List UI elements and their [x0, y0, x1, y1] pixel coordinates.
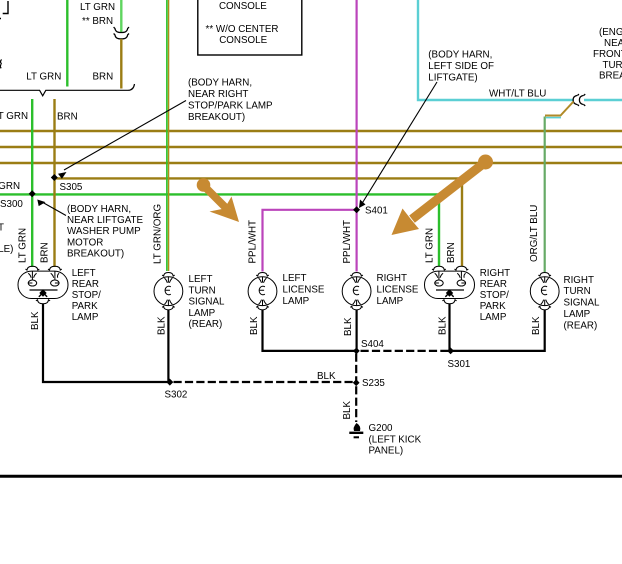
wire BLK lamp6 down to S301 [451, 310, 545, 351]
svg-text:BREAK: BREAK [599, 71, 622, 82]
wire BLK lamp3 down [263, 310, 357, 351]
inline connector on WHT/LT BLU [573, 94, 585, 106]
svg-text:LEFT SIDE OF: LEFT SIDE OF [428, 61, 494, 72]
splice S300 [29, 190, 36, 197]
big arrow 2 [392, 155, 494, 236]
svg-text:LEFT: LEFT [283, 273, 307, 284]
svg-text:BLK: BLK [249, 316, 260, 335]
wire LT GRN to left rear lamp [31, 99, 33, 267]
svg-text:LAMP: LAMP [189, 308, 216, 319]
svg-text:CONSOLE: CONSOLE [219, 35, 267, 46]
lamp left license [248, 273, 277, 310]
svg-text:BLK: BLK [30, 311, 41, 330]
svg-text:BREAKOUT): BREAKOUT) [67, 249, 124, 260]
page frame bottom [0, 475, 622, 478]
svg-text:NEAR R: NEAR R [604, 38, 622, 49]
big arrow 1 [197, 178, 239, 222]
wire LT BLU stripe jog [546, 117, 561, 119]
svg-text:LT GRN/ORG: LT GRN/ORG [153, 204, 164, 264]
svg-text:(BODY HARN,: (BODY HARN, [67, 204, 131, 215]
svg-text:LT GRN: LT GRN [0, 181, 20, 192]
svg-text:BRN: BRN [93, 72, 114, 83]
svg-text:REAR: REAR [72, 279, 99, 290]
leader to S401 [362, 82, 437, 204]
wire BLK dashed S404 to S301 [361, 350, 451, 352]
svg-text:TURN: TURN [564, 286, 591, 297]
svg-text:LT GRN: LT GRN [425, 228, 436, 263]
svg-text:BLK: BLK [157, 316, 168, 335]
svg-text:LEFT: LEFT [189, 274, 213, 285]
svg-text:RIGHT: RIGHT [564, 275, 594, 286]
svg-text:STOP/: STOP/ [72, 290, 101, 301]
lamp right turn signal [530, 273, 559, 310]
connector fragment left edge [0, 60, 1, 69]
splice S302 [166, 379, 173, 386]
svg-text:STOP/: STOP/ [480, 290, 509, 301]
svg-text:S401: S401 [365, 205, 388, 216]
inline connector on BRN wire [114, 27, 129, 39]
svg-text:NEAR LIFTGATE: NEAR LIFTGATE [67, 215, 143, 226]
svg-text:LAMP: LAMP [564, 309, 591, 320]
svg-text:LAMP: LAMP [72, 312, 99, 323]
svg-text:BLK: BLK [342, 401, 353, 420]
svg-text:S235: S235 [362, 378, 385, 389]
wire BLK lamp1 down [43, 304, 170, 382]
svg-text:PARK: PARK [72, 301, 98, 312]
svg-text:LAMP: LAMP [377, 296, 404, 307]
svg-text:LT GRN: LT GRN [0, 111, 28, 122]
svg-text:S300: S300 [0, 199, 23, 210]
svg-text:** BRN: ** BRN [82, 16, 113, 27]
svg-text:LICENSE: LICENSE [377, 284, 419, 295]
wire BRN bus 1 [0, 130, 622, 132]
svg-text:(LEFT KICK: (LEFT KICK [369, 435, 422, 446]
lamp left turn signal [154, 273, 183, 310]
wire BRN to left rear lamp [53, 99, 55, 267]
wire WHT/LT BLU from top [418, 0, 573, 100]
svg-text:S302: S302 [165, 390, 188, 401]
svg-text:CONSOLE: CONSOLE [219, 1, 267, 12]
svg-text:NEAR RIGHT: NEAR RIGHT [188, 89, 248, 100]
splice S401 [353, 206, 360, 213]
lamp right license [342, 273, 371, 310]
wire PPL/WHT from top to S401 [356, 0, 358, 210]
svg-text:BLK: BLK [317, 371, 336, 382]
ground G200 [349, 423, 363, 437]
svg-text:S305: S305 [60, 182, 83, 193]
wire PPL/WHT S401 branch to left license lamp [263, 210, 357, 272]
wire BLK dashed S302 to S235 [174, 381, 357, 383]
svg-text:RIGHT: RIGHT [377, 273, 407, 284]
svg-text:LT GRN: LT GRN [18, 228, 29, 263]
svg-text:PARK: PARK [480, 301, 506, 312]
svg-text:TURN: TURN [189, 285, 216, 296]
wire LT GRN/ORG to left turn lamp [167, 0, 169, 271]
splice S301 [447, 348, 454, 355]
svg-text:REAR: REAR [480, 279, 507, 290]
wire BLK lamp4 down [356, 310, 358, 351]
lamp left rear stop/park [18, 266, 68, 304]
svg-text:BRN: BRN [40, 242, 51, 263]
svg-text:LT GRN: LT GRN [80, 2, 115, 13]
svg-text:PPL/WHT: PPL/WHT [342, 220, 353, 264]
svg-text:LT GRN: LT GRN [26, 72, 61, 83]
svg-text:BLK: BLK [343, 317, 354, 336]
svg-text:BREAKOUT): BREAKOUT) [188, 112, 245, 123]
svg-text:T: T [0, 223, 4, 234]
svg-text:ORG/LT BLU: ORG/LT BLU [529, 205, 540, 262]
svg-text:G200: G200 [369, 423, 394, 434]
lamp right rear stop/park [425, 266, 475, 304]
dashed box corner top left [0, 1, 8, 19]
leader to S300 [42, 202, 66, 216]
svg-text:SIGNAL: SIGNAL [189, 297, 225, 308]
svg-text:WHT/LT BLU: WHT/LT BLU [489, 89, 546, 100]
wire BLK lamp5 down [448, 304, 450, 351]
wire BLK dashed S235 to G200 [355, 386, 357, 422]
splice S235 [353, 379, 360, 386]
svg-text:WASHER PUMP: WASHER PUMP [67, 226, 141, 237]
svg-text:MOTOR: MOTOR [67, 237, 103, 248]
harness brace [0, 84, 135, 96]
wire ORG/LT BLU to right turn lamp [544, 117, 546, 273]
svg-text:(REAR): (REAR) [564, 320, 598, 331]
svg-text:(BODY HARN,: (BODY HARN, [428, 50, 492, 61]
svg-text:LAMP: LAMP [283, 296, 310, 307]
wire BRN S305 to right rear lamp [55, 178, 463, 266]
wire ORG/LT BLU jog [545, 102, 574, 116]
wire LT GRN top left vertical [66, 0, 68, 87]
svg-text:STOP/PARK LAMP: STOP/PARK LAMP [188, 100, 273, 111]
svg-text:PPL/WHT: PPL/WHT [248, 220, 259, 264]
svg-text:BRN: BRN [446, 242, 457, 263]
wire BLK lamp2 down [167, 310, 169, 382]
svg-text:BLK: BLK [531, 316, 542, 335]
wire BLK dashed S404 to S235 [355, 354, 357, 383]
svg-text:(REAR): (REAR) [189, 319, 223, 330]
svg-text:LAMP: LAMP [480, 312, 507, 323]
svg-text:LE): LE) [0, 244, 13, 255]
wire PPL/WHT S401 to right license lamp [356, 210, 358, 272]
svg-text:S301: S301 [448, 359, 471, 370]
splice S305 [51, 174, 58, 181]
leader to S305 [64, 101, 186, 171]
wire LT GRN above connector C [120, 0, 122, 33]
svg-text:S404: S404 [361, 339, 384, 350]
svg-text:(BODY HARN,: (BODY HARN, [188, 77, 252, 88]
wire WHT/LT BLU right of connector [584, 99, 622, 101]
wire LT GRN bus S300 to right rear lamp [0, 194, 439, 266]
splice S404 [353, 348, 360, 355]
svg-text:LEFT: LEFT [72, 268, 96, 279]
svg-text:LICENSE: LICENSE [283, 284, 325, 295]
console note box [198, 0, 302, 55]
wire BRN below connector [120, 39, 122, 89]
svg-text:BLK: BLK [438, 316, 449, 335]
svg-text:RIGHT: RIGHT [480, 268, 510, 279]
wire BRN bus 2 [0, 146, 622, 148]
svg-text:TURN L: TURN L [603, 60, 622, 71]
svg-text:** W/O CENTER: ** W/O CENTER [206, 24, 279, 35]
svg-text:PANEL): PANEL) [369, 446, 404, 457]
svg-text:SIGNAL: SIGNAL [564, 298, 600, 309]
svg-text:LIFTGATE): LIFTGATE) [428, 73, 477, 84]
wire BRN bus 3 [0, 162, 622, 164]
svg-text:BRN: BRN [57, 111, 78, 122]
svg-text:FRONT P: FRONT P [593, 49, 622, 60]
svg-text:(ENGINE: (ENGINE [599, 27, 622, 38]
